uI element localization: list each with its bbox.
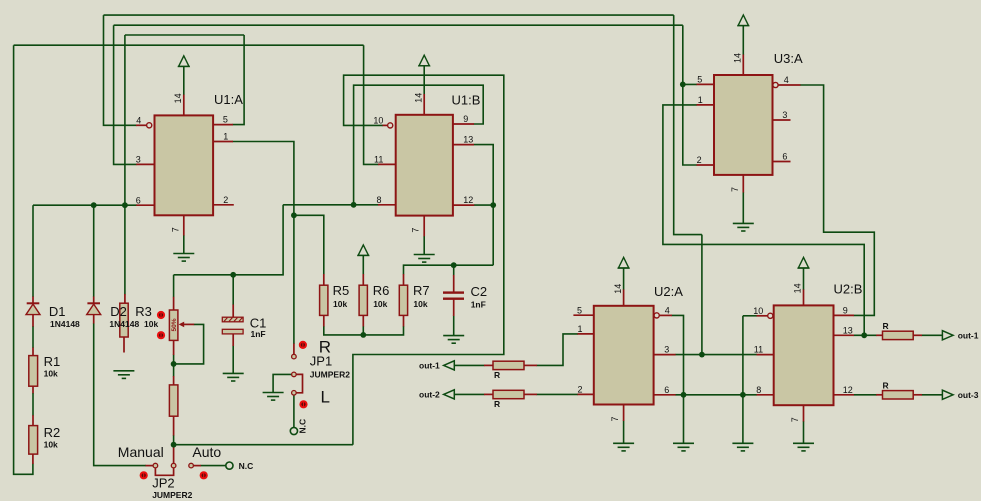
wire JP1 pin2 to ground — [273, 374, 292, 392]
jumper JP1 pin2 — [292, 372, 297, 377]
wire U2:A power stem — [623, 268, 625, 290]
lead out-1 left resistor right — [524, 364, 537, 366]
node U3:A pin5 — [680, 82, 686, 88]
svg-text:U3:A: U3:A — [774, 51, 803, 66]
svg-text:D2: D2 — [110, 304, 127, 319]
power symbol above U1:B — [418, 55, 430, 66]
wire net-B drop to U1:A pin3 — [114, 25, 137, 164]
node U2:B pin8-10 — [740, 392, 746, 398]
lead R7 bottom — [403, 315, 405, 326]
wire JP1 pin3 to NC terminal — [293, 395, 295, 427]
svg-text:Manual: Manual — [118, 444, 164, 460]
svg-text:C2: C2 — [471, 284, 488, 299]
pin stub U2:A p5 — [573, 314, 593, 316]
lead R6 top — [362, 274, 364, 285]
svg-text:out-1: out-1 — [958, 331, 979, 341]
power symbol above U2:A — [618, 257, 630, 268]
wire top rail net-D (left loop to U1:B pin11) — [14, 44, 364, 46]
wire U2:B pin10 stub link — [743, 315, 757, 317]
pin stub U3:A p7 — [742, 175, 744, 193]
jumper JP1 pin3 — [292, 391, 297, 396]
svg-text:JUMPER2: JUMPER2 — [152, 490, 192, 500]
wire U2:A pin3 row to U2:B pin11 — [675, 354, 757, 356]
diode D1 — [26, 303, 40, 314]
wire out-3 right resistor to terminal — [922, 394, 943, 396]
lead JP1 bracket — [296, 374, 303, 392]
U1:B pin10 bubble — [388, 123, 393, 128]
capacitor C2 top plate — [443, 291, 464, 293]
lead C1 bottom — [232, 334, 234, 346]
svg-text:R1: R1 — [44, 354, 61, 369]
svg-text:14: 14 — [733, 53, 743, 63]
svg-text:11: 11 — [754, 345, 763, 355]
power symbol above U2:B — [798, 257, 810, 268]
wire top rail net-C (U1:A pin5 to pin6 loop) — [125, 34, 244, 36]
svg-text:9: 9 — [843, 305, 848, 315]
wire net-C drop through pin6 node to R3 — [124, 35, 126, 295]
power symbol above R6 — [357, 245, 369, 256]
wire D2 branch down — [93, 205, 95, 297]
ground under U1:B pin7 — [414, 255, 435, 263]
svg-text:R2: R2 — [44, 425, 61, 440]
svg-text:U1:B: U1:B — [452, 92, 481, 107]
wire top rail net-A (U1:A pin4 to U2:A pins3-11) — [104, 14, 674, 16]
node C2 top — [451, 262, 457, 268]
wire pot bottom to dot — [173, 355, 175, 377]
potentiometer RV1 body — [169, 310, 178, 340]
wire net-B continue to U3:A pin2 — [683, 84, 697, 165]
wire R1 to R2 — [32, 393, 34, 415]
wire net-A drop right to jog — [674, 15, 702, 235]
pad marker JP2 right — [200, 471, 208, 479]
wire D1 branch down — [32, 205, 34, 297]
ground under U2:A pin7 — [613, 443, 634, 451]
svg-text:2: 2 — [578, 384, 583, 394]
pin stub U2:A p7 — [623, 404, 625, 421]
svg-text:3: 3 — [664, 345, 669, 355]
svg-text:R7: R7 — [413, 283, 430, 298]
svg-text:N.C: N.C — [239, 461, 254, 471]
wire U3:A pin7 to ground — [742, 192, 744, 223]
wire C1 top stem — [232, 275, 234, 305]
pin stub U1:A p3 — [136, 163, 154, 165]
pin stub U2:B p10 — [757, 315, 768, 317]
svg-text:R: R — [883, 380, 889, 390]
svg-text:10k: 10k — [44, 439, 58, 449]
svg-text:7: 7 — [411, 228, 421, 233]
svg-text:6: 6 — [664, 385, 669, 395]
pin stub U1:B p8 — [378, 204, 396, 206]
op-amp U2:A body — [594, 306, 654, 405]
terminal out-1 right — [942, 331, 953, 340]
svg-text:12: 12 — [843, 385, 853, 395]
ground under R3 — [113, 371, 134, 379]
pin stub U1:A p5 — [213, 124, 233, 126]
lead pot top — [173, 297, 175, 310]
wire out-2 left terminal to resistor — [454, 393, 484, 395]
lead D1 top — [32, 297, 34, 304]
node U2:B pin13 — [861, 332, 867, 338]
wire pin6 node to ground — [683, 395, 685, 444]
capacitor C1 top plate (hatched) — [222, 317, 243, 322]
svg-text:10: 10 — [753, 306, 763, 316]
svg-text:R: R — [883, 321, 889, 331]
wire U1:A pin7 to ground — [183, 235, 185, 254]
node U1:B pin8 — [351, 202, 357, 208]
pin stub U3:A p3 — [773, 119, 791, 121]
svg-text:9: 9 — [463, 114, 468, 124]
svg-text:5: 5 — [577, 305, 582, 315]
op-amp U1:A body — [155, 115, 214, 215]
terminal out-1 left — [444, 361, 455, 370]
svg-text:10k: 10k — [373, 299, 387, 309]
wire U2:A pin6 row to U2:B pin8 — [675, 394, 757, 396]
node U1:B pin12-13 — [490, 202, 496, 208]
ground under C2 — [443, 336, 464, 344]
lead Auto junction to JP2 pin2 — [173, 445, 175, 463]
wire net-D drop to U1:B pin11 — [364, 45, 379, 164]
U1:A pin4 bubble — [147, 123, 152, 128]
resistor below pot body — [169, 385, 178, 416]
ground U2:A pin6 branch — [673, 443, 694, 451]
resistor R6 body — [359, 285, 367, 315]
svg-text:5: 5 — [223, 115, 228, 125]
svg-text:12: 12 — [463, 195, 473, 205]
wire U1:B power stem — [423, 66, 425, 95]
pin stub U3:A p4 — [778, 84, 800, 86]
lead JP2 pin3 stub — [193, 465, 201, 467]
pin stub U2:B p8 — [757, 394, 774, 396]
node R6 bottom — [360, 332, 366, 338]
lead R7 top — [403, 274, 405, 285]
wire C2 bottom stem — [453, 316, 455, 336]
terminal N.C at JP2 — [226, 462, 233, 469]
pin stub U1:B p9 — [453, 123, 474, 125]
svg-text:14: 14 — [413, 93, 423, 103]
lead out-2 left resistor right — [524, 393, 537, 395]
svg-text:Auto: Auto — [192, 444, 221, 460]
pin stub U2:B p12 — [834, 394, 855, 396]
svg-text:L: L — [321, 388, 330, 407]
lead out-2 left resistor left — [484, 393, 493, 395]
wire JP2 auto pin to NC — [201, 465, 226, 467]
svg-text:out-2: out-2 — [419, 390, 440, 400]
lead D1 lower — [32, 314, 34, 327]
U3:A pin4 bubble — [773, 82, 778, 87]
svg-text:3: 3 — [782, 110, 787, 120]
svg-text:1: 1 — [698, 95, 703, 105]
wire R5 top branch — [294, 215, 324, 274]
resistor R out-3 right body — [883, 391, 914, 399]
ground under C1 — [223, 373, 244, 381]
svg-text:10k: 10k — [144, 319, 158, 329]
lead C2 top — [453, 275, 455, 292]
pad marker pot top — [157, 311, 165, 319]
wire U3:A pin4 route to U2:B pin9 — [800, 85, 874, 315]
lead lower resistor top — [173, 376, 175, 385]
capacitor C1 bottom plate — [222, 329, 243, 334]
pin stub U3:A p14 — [742, 55, 744, 76]
svg-text:1N4148: 1N4148 — [109, 319, 139, 329]
wire C2 rail up to U1:B pin12 node — [492, 205, 494, 265]
svg-text:D1: D1 — [49, 304, 66, 319]
svg-text:N.C: N.C — [298, 419, 308, 434]
node U2:A pin3 / U2:B pin11 — [699, 352, 705, 358]
wire out-1 left resistor to U2:A pin1 — [537, 334, 579, 366]
capacitor C2 bottom plate — [443, 298, 464, 300]
resistor R7 body — [399, 285, 407, 315]
wire R7 top to C2 rail — [404, 265, 494, 274]
svg-text:1: 1 — [223, 132, 228, 142]
pin stub U2:A p3 — [654, 354, 676, 356]
jumper JP2 pin1 — [153, 463, 158, 468]
svg-text:10k: 10k — [333, 299, 347, 309]
lead R3 bottom — [123, 337, 125, 353]
pin stub U1:A p4 — [136, 124, 147, 126]
svg-text:R: R — [494, 399, 500, 409]
svg-text:R5: R5 — [333, 283, 350, 298]
pin stub U2:A p14 — [623, 290, 625, 306]
pin stub U2:B p7 — [803, 405, 805, 422]
pin stub U3:A p5 — [697, 83, 715, 85]
svg-text:out-3: out-3 — [958, 390, 979, 400]
op-amp U2:B body — [774, 305, 834, 405]
svg-text:JUMPER2: JUMPER2 — [310, 370, 350, 380]
lead R5 top — [323, 274, 325, 285]
ground U2:B pin8 branch — [732, 443, 753, 451]
svg-text:1nF: 1nF — [251, 329, 266, 339]
wire U2:B pin10 loop down to pin8 node — [742, 316, 744, 395]
lead JP2 bracket — [155, 468, 173, 476]
jumper JP1 pin1 — [292, 354, 297, 359]
node pot wiper — [171, 361, 177, 367]
lead JP1 pin1 stub — [293, 344, 295, 355]
terminal N.C at JP1 — [290, 427, 297, 434]
lead R1 bottom — [32, 386, 34, 394]
wire lower resistor to Auto junction — [173, 435, 175, 445]
svg-text:1N4148: 1N4148 — [50, 319, 80, 329]
svg-text:6: 6 — [782, 152, 787, 162]
diode D2 — [87, 303, 101, 314]
pin stub U1:A p7 — [183, 215, 185, 235]
pin stub U1:A p14 — [183, 95, 185, 116]
pin stub U2:B p9 — [834, 314, 855, 316]
ground under U2:B pin7 — [793, 443, 814, 451]
lead R1 top — [32, 348, 34, 357]
pin stub U2:A p4 — [659, 314, 672, 316]
wire out-1 right resistor to terminal — [922, 334, 943, 336]
terminal out-3 right — [942, 390, 953, 399]
U2:A pin4 bubble — [654, 313, 659, 318]
wire pot top stem — [173, 275, 175, 297]
svg-text:2: 2 — [223, 195, 228, 205]
lead pot bottom — [173, 340, 175, 355]
svg-text:13: 13 — [463, 135, 473, 145]
svg-text:8: 8 — [377, 195, 382, 205]
svg-text:7: 7 — [170, 227, 180, 232]
svg-text:4: 4 — [665, 306, 670, 316]
node R5 branch — [291, 212, 297, 218]
pin stub U1:A p1 — [213, 141, 233, 143]
pin stub U1:B p10 — [383, 124, 388, 126]
svg-text:14: 14 — [173, 93, 183, 103]
svg-text:14: 14 — [613, 284, 623, 294]
pin stub U2:B p11 — [757, 354, 774, 356]
ground under U1:A pin7 — [173, 254, 194, 262]
wire net-A drop to U1:A pin4 — [104, 15, 137, 125]
svg-text:14: 14 — [793, 283, 803, 293]
resistor R out-1 left body — [493, 361, 524, 369]
wire U3:A power stem — [742, 26, 744, 55]
wire pin8 corner down to C1 rail — [174, 205, 284, 275]
node U2:A pin6-4 — [681, 392, 687, 398]
lead C2 bottom — [453, 300, 455, 316]
wire U1:B pin7 to ground — [423, 236, 425, 255]
svg-text:11: 11 — [374, 155, 383, 165]
svg-text:2: 2 — [697, 155, 702, 165]
lead R6 bottom — [362, 315, 364, 326]
pin stub U2:B p13 — [834, 334, 855, 336]
lead C1 top — [232, 305, 234, 318]
svg-text:10k: 10k — [413, 299, 427, 309]
svg-text:8: 8 — [756, 385, 761, 395]
wire out-2 left resistor to U2:A pin2 — [537, 393, 579, 395]
wire D1 to R1 — [32, 327, 34, 349]
wire U1:B pin9 loop — [354, 85, 484, 205]
lead pot wiper arrow — [181, 323, 194, 325]
svg-text:out-1: out-1 — [419, 361, 440, 371]
jumper JP2 pin3 — [189, 463, 194, 468]
lead D2 bottom — [93, 314, 95, 323]
wire U1:A pin1 to JP1 pin1 — [233, 142, 294, 345]
pin stub U1:B p13 — [453, 144, 474, 146]
pin stub U1:B p7 — [423, 216, 425, 237]
svg-text:JP1: JP1 — [310, 354, 332, 369]
lead out-3 right resistor right — [913, 394, 922, 396]
svg-text:3: 3 — [136, 155, 141, 165]
svg-text:7: 7 — [730, 187, 740, 192]
svg-text:7: 7 — [790, 417, 800, 422]
wire C1 bottom stem — [232, 346, 234, 374]
wire R5-R6-R7 bottom rail — [324, 326, 404, 335]
U2:B pin10 bubble — [768, 313, 773, 318]
svg-text:U2:A: U2:A — [654, 284, 683, 299]
op-amp U1:B body — [396, 115, 453, 216]
svg-text:6: 6 — [136, 195, 141, 205]
pin stub U1:B p11 — [378, 163, 396, 165]
power symbol above U1:A — [178, 56, 190, 67]
resistor R out-2 left body — [493, 390, 524, 398]
resistor R2 body — [29, 426, 38, 455]
wire U1:B pin13 loop — [474, 145, 494, 206]
pin stub U3:A p1 — [697, 104, 715, 106]
lead R3 top — [124, 294, 126, 303]
lead out-1 left resistor left — [484, 364, 493, 366]
wire out-1 left terminal to resistor — [454, 364, 484, 366]
resistor R1 body — [29, 356, 38, 387]
lead out-3 right resistor left — [876, 394, 883, 396]
resistor R out-1 right body — [883, 331, 914, 339]
pin stub U3:A p6 — [773, 161, 791, 163]
node U1:A pin6 / R3 — [122, 202, 128, 208]
lead R2 bottom — [32, 454, 34, 464]
pin stub U2:A p1 — [578, 333, 594, 335]
wire R6 power stem — [362, 255, 364, 274]
svg-text:4: 4 — [136, 115, 141, 125]
wire U1:B pin8 row — [283, 204, 378, 206]
svg-text:R3: R3 — [135, 304, 152, 319]
pin stub U1:B p12 — [453, 204, 474, 206]
power symbol above U3:A — [737, 15, 749, 26]
node D2 branch — [91, 202, 97, 208]
pad marker JP2 left — [140, 471, 148, 479]
svg-text:7: 7 — [610, 416, 620, 421]
ground at JP1 — [263, 393, 284, 401]
resistor R5 body — [320, 285, 328, 315]
wire net-C drop to U1:A pin5 — [233, 35, 245, 125]
pin stub U2:A p2 — [578, 393, 594, 395]
wire net-D left drop to R2 bottom — [14, 45, 33, 474]
resistor R3 body — [120, 303, 128, 337]
pin stub U2:B p14 — [803, 290, 805, 306]
pad marker JP1 R — [299, 341, 307, 349]
lead lower resistor bottom — [173, 416, 175, 436]
svg-text:U1:A: U1:A — [214, 92, 243, 107]
op-amp U3:A body — [714, 75, 773, 175]
pin stub U3:A p2 — [697, 164, 715, 166]
wire R6 bottom lead — [362, 326, 364, 335]
svg-text:5: 5 — [697, 74, 702, 84]
svg-text:R: R — [494, 370, 500, 380]
node C1 top — [230, 272, 236, 278]
svg-text:U2:B: U2:B — [834, 282, 863, 297]
svg-text:10k: 10k — [44, 368, 58, 378]
jumper JP2 pin2 — [171, 463, 176, 468]
wire top rail net-B (U1:A pin3 to U3:A pins5-2) — [114, 24, 683, 26]
wire U2:A pin7 to ground — [623, 421, 625, 444]
svg-text:1: 1 — [578, 324, 583, 334]
pad marker pot bottom — [157, 331, 165, 339]
wire U2:A pin4 loop to pin6 node — [672, 315, 684, 394]
wire net-B drop to U3:A pin5 — [683, 25, 697, 84]
pin stub U1:A p2 — [213, 204, 234, 206]
svg-text:10: 10 — [373, 116, 383, 126]
wire U1:B pin12 row — [474, 204, 493, 206]
lead JP2 pin1 wire — [146, 465, 153, 467]
wire pot wiper route — [174, 324, 204, 364]
wire Auto junction row to riser — [174, 444, 353, 446]
ground under U3:A pin7 — [733, 223, 754, 231]
wire pin8 node to ground — [742, 395, 744, 444]
lead out-1 right resistor right — [913, 334, 922, 336]
pin stub U2:A p6 — [654, 394, 676, 396]
wire pin13 node riser — [663, 105, 864, 335]
wire U2:B pin12 to out-3 resistor — [854, 394, 877, 396]
wire U2:B power stem — [803, 268, 805, 290]
pin stub U1:A p6 — [136, 204, 154, 206]
svg-text:50%: 50% — [171, 318, 178, 331]
lead D2 top — [93, 297, 95, 304]
terminal out-2 left — [444, 390, 455, 399]
lead out-1 right resistor left — [876, 334, 883, 336]
svg-text:JP2: JP2 — [152, 475, 174, 490]
potentiometer RV1 wiper arrowhead — [179, 322, 185, 328]
svg-text:13: 13 — [843, 325, 853, 335]
wire riser up and over to U1:B pin10 loop — [344, 75, 504, 445]
lead R2 top — [32, 415, 34, 426]
pin stub U1:B p14 — [423, 94, 425, 115]
wire U1:A pin6 row — [33, 204, 137, 206]
